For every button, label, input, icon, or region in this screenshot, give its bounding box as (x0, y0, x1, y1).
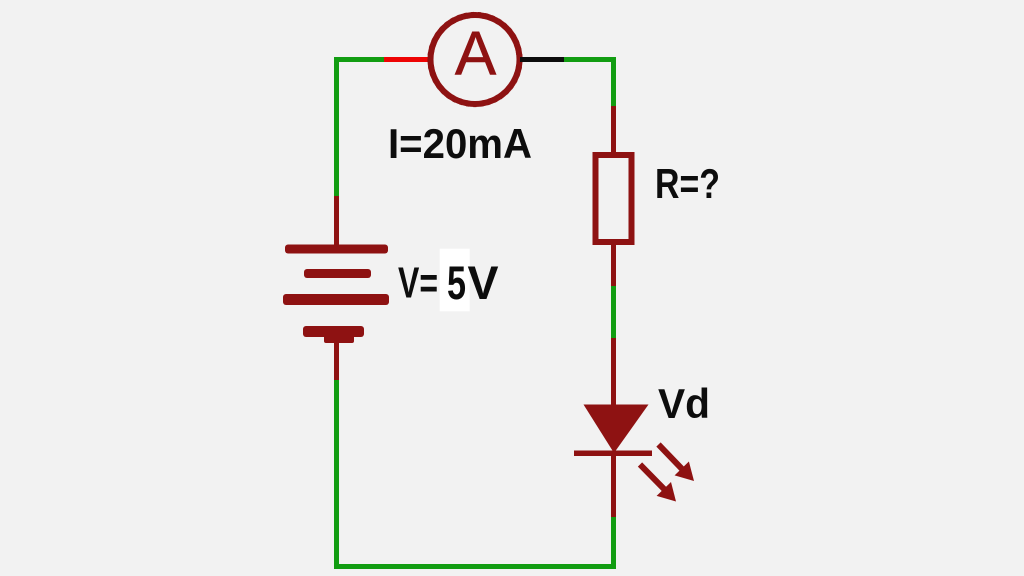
wire right vertical dark red above resistor (611, 106, 616, 154)
svg-text:I=20mA: I=20mA (388, 120, 532, 167)
svg-text:R=?: R=? (655, 160, 720, 207)
LED light arrow 2 (640, 465, 676, 502)
LED light arrow 1 (659, 445, 695, 482)
wire left vertical dark red above battery (334, 196, 339, 247)
svg-text:A: A (455, 20, 497, 89)
wire right vertical dark red above LED (611, 338, 616, 408)
LED D1 (574, 405, 652, 454)
svg-text:V: V (468, 256, 500, 309)
wire right vertical green lower (611, 517, 616, 569)
battery V1 (283, 245, 389, 344)
wire left vertical green top (334, 57, 339, 198)
wire top red segment (384, 57, 430, 62)
wire right vertical dark red below resistor (611, 244, 616, 288)
wire left vertical dark red below battery (334, 337, 339, 382)
svg-text:V=: V= (398, 259, 438, 308)
ammeter A1 (428, 13, 522, 107)
svg-text:5: 5 (447, 256, 466, 309)
wire top-left horizontal green (334, 57, 385, 62)
label V=5V (398, 249, 499, 312)
wire left vertical green bottom (334, 380, 339, 569)
wire top black segment (520, 57, 566, 62)
svg-text:Vd: Vd (658, 380, 710, 427)
wire right vertical green middle (611, 286, 616, 340)
wire right vertical green upper (611, 57, 616, 108)
resistor R1 (596, 155, 632, 242)
wire top-right horizontal green (564, 57, 616, 62)
wire right vertical dark red below LED (611, 453, 616, 519)
wire bottom horizontal green (334, 564, 616, 569)
